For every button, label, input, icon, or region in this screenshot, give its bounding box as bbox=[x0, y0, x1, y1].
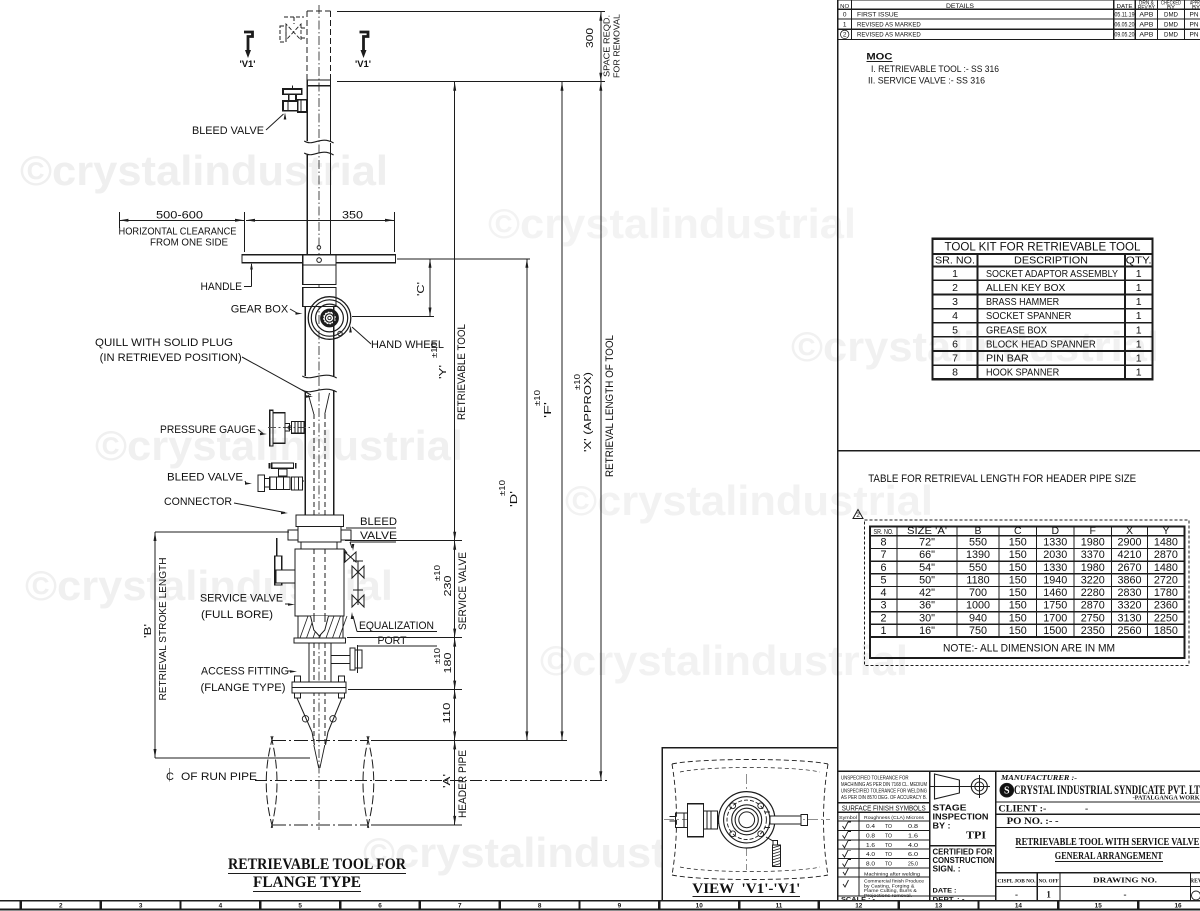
svg-text:5: 5 bbox=[298, 903, 302, 910]
svg-text:2250: 2250 bbox=[1154, 612, 1178, 624]
dimension X retrieval length of tool bbox=[410, 82, 616, 781]
svg-text:1.6: 1.6 bbox=[908, 833, 918, 839]
label hand wheel bbox=[349, 326, 444, 352]
section arrow V1 right bbox=[355, 32, 371, 70]
svg-text:TO: TO bbox=[885, 862, 892, 868]
svg-text:3: 3 bbox=[880, 600, 886, 612]
svg-text:SURFACE FINISH SYMBOLS: SURFACE FINISH SYMBOLS bbox=[842, 804, 926, 813]
title block outer bbox=[838, 771, 1200, 900]
handle bbox=[242, 255, 396, 266]
svg-text:RETRIEVABLE TOOL WITH SERVICE: RETRIEVABLE TOOL WITH SERVICE VALVE bbox=[1015, 837, 1199, 848]
svg-text:1180: 1180 bbox=[966, 574, 989, 586]
svg-text:1700: 1700 bbox=[1043, 612, 1067, 624]
svg-text:FIRST ISSUE: FIRST ISSUE bbox=[857, 12, 898, 19]
svg-text:'V1': 'V1' bbox=[355, 59, 371, 70]
svg-text:Roughness (CLA) Microns: Roughness (CLA) Microns bbox=[864, 815, 925, 820]
svg-text:RETRIEVAL STROKE LENGTH: RETRIEVAL STROKE LENGTH bbox=[157, 558, 169, 701]
svg-text:SIGN. :: SIGN. : bbox=[933, 865, 961, 874]
svg-text:1980: 1980 bbox=[1081, 562, 1105, 574]
pressure gauge bbox=[268, 410, 310, 446]
svg-text:8.0: 8.0 bbox=[866, 862, 875, 868]
svg-text:1: 1 bbox=[1136, 282, 1142, 294]
svg-text:2280: 2280 bbox=[1081, 587, 1105, 599]
view V1-V1 chain and pendant bbox=[766, 837, 780, 867]
dimension C bbox=[352, 259, 530, 317]
svg-text:STAGE: STAGE bbox=[933, 804, 967, 813]
svg-text:Symbol: Symbol bbox=[839, 815, 857, 820]
svg-text:4.0: 4.0 bbox=[908, 843, 918, 849]
svg-text:6: 6 bbox=[952, 338, 958, 350]
svg-text:NOTE:- ALL DIMENSION ARE IN MM: NOTE:- ALL DIMENSION ARE IN MM bbox=[943, 643, 1115, 655]
revision triangle marker 2 bbox=[853, 510, 863, 520]
svg-text:150: 150 bbox=[1009, 537, 1027, 549]
svg-text:1: 1 bbox=[843, 21, 847, 28]
svg-text:CISPL JOB NO.: CISPL JOB NO. bbox=[998, 879, 1037, 885]
svg-text:940: 940 bbox=[969, 612, 987, 624]
svg-text:-PATALGANGA WORK: -PATALGANGA WORK bbox=[1133, 796, 1200, 802]
svg-text:16: 16 bbox=[1174, 903, 1182, 910]
label handle bbox=[201, 263, 253, 294]
svg-text:0.8: 0.8 bbox=[866, 833, 875, 839]
svg-text:1940: 1940 bbox=[1043, 574, 1067, 586]
svg-text:150: 150 bbox=[1009, 625, 1027, 637]
svg-text:300: 300 bbox=[584, 28, 596, 48]
svg-text:F: F bbox=[1090, 525, 1096, 537]
svg-text:APB: APB bbox=[1139, 21, 1153, 28]
view V1-V1 title bbox=[692, 881, 800, 897]
svg-text:BLEED: BLEED bbox=[360, 516, 397, 528]
svg-text:-: - bbox=[1085, 805, 1088, 815]
svg-text:2: 2 bbox=[59, 903, 63, 910]
service valve lower hatched section bbox=[294, 616, 347, 643]
retrieval length table bbox=[870, 525, 1184, 658]
svg-text:'B': 'B' bbox=[142, 624, 154, 638]
dimension A header pipe bbox=[371, 740, 567, 825]
svg-text:150: 150 bbox=[1009, 562, 1027, 574]
view V1-V1 left stem assembly bbox=[670, 804, 719, 837]
svg-text:DMD: DMD bbox=[1164, 21, 1178, 28]
view V1-V1 flange circles bbox=[719, 792, 775, 848]
svg-text:230: 230 bbox=[442, 575, 454, 596]
svg-text:4.0: 4.0 bbox=[866, 852, 875, 858]
svg-text:1780: 1780 bbox=[1154, 587, 1178, 599]
svg-text:PORT: PORT bbox=[378, 635, 407, 647]
dimension 110 bbox=[441, 690, 456, 741]
svg-text:1: 1 bbox=[1046, 890, 1051, 900]
view V1-V1 box bbox=[662, 748, 838, 901]
svg-text:±10: ±10 bbox=[430, 341, 439, 358]
tool kit table bbox=[933, 239, 1153, 380]
svg-text:BRASS HAMMER: BRASS HAMMER bbox=[986, 296, 1060, 308]
view V1-V1 right stem bbox=[765, 812, 808, 828]
svg-text:BY: BY bbox=[1192, 5, 1200, 11]
svg-text:54": 54" bbox=[919, 562, 935, 574]
svg-text:GEAR BOX: GEAR BOX bbox=[231, 304, 289, 316]
svg-text:REVISED AS MARKED: REVISED AS MARKED bbox=[857, 21, 921, 28]
svg-text:CLIENT :-: CLIENT :- bbox=[998, 805, 1046, 815]
svg-text:66": 66" bbox=[919, 549, 935, 561]
panel separator horizontal line bbox=[838, 450, 1200, 452]
svg-text:3: 3 bbox=[139, 903, 143, 910]
label centerline of run pipe bbox=[166, 768, 257, 783]
svg-text:14: 14 bbox=[1015, 903, 1023, 910]
svg-text:UNSPECIFIED TOLERANCE FOR: UNSPECIFIED TOLERANCE FOR bbox=[841, 776, 909, 782]
svg-text:30": 30" bbox=[919, 612, 935, 624]
svg-text:1: 1 bbox=[952, 268, 958, 280]
svg-text:110: 110 bbox=[441, 702, 453, 723]
svg-text:SOCKET SPANNER: SOCKET SPANNER bbox=[986, 310, 1072, 322]
svg-text:3370: 3370 bbox=[1081, 549, 1105, 561]
drawing title retrievable tool for flange type bbox=[228, 856, 407, 892]
svg-text:±10: ±10 bbox=[573, 373, 582, 390]
svg-text:TOOL KIT FOR RETRIEVABLE TOOL: TOOL KIT FOR RETRIEVABLE TOOL bbox=[945, 242, 1142, 254]
svg-text:2360: 2360 bbox=[1154, 600, 1178, 612]
svg-text:10: 10 bbox=[696, 903, 704, 910]
svg-text:7: 7 bbox=[952, 353, 958, 365]
svg-text:1: 1 bbox=[1136, 338, 1142, 350]
svg-text:350: 350 bbox=[342, 210, 363, 222]
svg-text:72": 72" bbox=[919, 537, 935, 549]
svg-text:BY: BY bbox=[1167, 5, 1176, 11]
svg-text:APB: APB bbox=[1139, 32, 1153, 39]
svg-text:TO: TO bbox=[885, 843, 892, 849]
svg-text:SERVICE VALVE: SERVICE VALVE bbox=[200, 593, 283, 605]
svg-text:150: 150 bbox=[1009, 574, 1027, 586]
svg-text:RETRIEVABLE TOOL: RETRIEVABLE TOOL bbox=[456, 324, 468, 420]
svg-text:25.0: 25.0 bbox=[908, 862, 918, 868]
svg-text:FOR REMOVAL: FOR REMOVAL bbox=[613, 14, 622, 78]
svg-text:2870: 2870 bbox=[1154, 549, 1178, 561]
svg-text:3130: 3130 bbox=[1117, 612, 1141, 624]
svg-text:FLANGE TYPE: FLANGE TYPE bbox=[253, 874, 361, 891]
svg-text:5: 5 bbox=[880, 574, 886, 586]
manufacturer block bbox=[996, 773, 1200, 873]
svg-text:'C': 'C' bbox=[415, 282, 427, 296]
extension line handle top bbox=[397, 258, 530, 260]
svg-text:DATE :: DATE : bbox=[933, 888, 957, 895]
svg-text:QUILL WITH SOLID PLUG: QUILL WITH SOLID PLUG bbox=[95, 337, 233, 349]
svg-text:(FULL BORE): (FULL BORE) bbox=[201, 609, 273, 621]
svg-text:-: - bbox=[1015, 890, 1018, 900]
svg-text:HANDLE: HANDLE bbox=[201, 281, 243, 293]
svg-text:1: 1 bbox=[1136, 310, 1142, 322]
bleed valve middle bbox=[258, 463, 304, 491]
connector bbox=[288, 515, 351, 549]
svg-text:36": 36" bbox=[919, 600, 935, 612]
dimension F bbox=[533, 82, 564, 741]
svg-text:1850: 1850 bbox=[1154, 625, 1178, 637]
svg-text:SIZE 'A': SIZE 'A' bbox=[907, 525, 947, 537]
service valve body bbox=[275, 538, 344, 616]
view V1-V1 pipe section phantom bbox=[672, 760, 828, 880]
svg-text:0.8: 0.8 bbox=[908, 824, 918, 830]
svg-text:BLEED VALVE: BLEED VALVE bbox=[192, 125, 264, 137]
svg-text:RETRIEVABLE TOOL FOR: RETRIEVABLE TOOL FOR bbox=[228, 856, 407, 873]
dimension B retrieval stroke length bbox=[142, 532, 310, 758]
svg-text:(IN RETRIEVED POSITION): (IN RETRIEVED POSITION) bbox=[100, 352, 242, 364]
svg-text:TO: TO bbox=[885, 824, 892, 830]
projection symbol bbox=[930, 774, 990, 799]
svg-text:MANUFACTURER :-: MANUFACTURER :- bbox=[1000, 773, 1077, 782]
bleed valve fittings on service valve bbox=[344, 549, 364, 607]
svg-text:D: D bbox=[1051, 525, 1059, 537]
svg-text:500-600: 500-600 bbox=[156, 210, 203, 222]
phantom pipe extension (tool removed position) bbox=[307, 11, 330, 80]
svg-text:06.05.20: 06.05.20 bbox=[1115, 21, 1135, 28]
svg-text:SPACE REQD.: SPACE REQD. bbox=[603, 15, 612, 77]
svg-text:©crystalindustrial: ©crystalindustrial bbox=[540, 637, 908, 684]
label pressure gauge bbox=[160, 424, 267, 436]
svg-text:PIN BAR: PIN BAR bbox=[986, 353, 1029, 365]
svg-text:4210: 4210 bbox=[1117, 549, 1141, 561]
svg-text:TO: TO bbox=[885, 833, 892, 839]
svg-text:BLOCK HEAD SPANNER: BLOCK HEAD SPANNER bbox=[986, 338, 1096, 350]
svg-text:REVISED AS MARKED: REVISED AS MARKED bbox=[857, 32, 921, 39]
svg-text:1460: 1460 bbox=[1043, 587, 1067, 599]
svg-text:12: 12 bbox=[855, 903, 863, 910]
svg-text:3320: 3320 bbox=[1117, 600, 1141, 612]
svg-text:NO. OFF: NO. OFF bbox=[1039, 879, 1060, 885]
svg-text:OF RUN PIPE: OF RUN PIPE bbox=[181, 771, 257, 783]
hand wheel bbox=[308, 297, 351, 340]
svg-text:©crystalindustrial: ©crystalindustrial bbox=[95, 422, 463, 469]
svg-text:APB: APB bbox=[1139, 12, 1153, 19]
svg-text:II. SERVICE VALVE :- SS 316: II. SERVICE VALVE :- SS 316 bbox=[868, 76, 985, 87]
svg-text:8: 8 bbox=[952, 367, 958, 379]
svg-text:2: 2 bbox=[880, 612, 886, 624]
access fitting (flange type) bbox=[292, 643, 362, 768]
svg-text:(FLANGE TYPE): (FLANGE TYPE) bbox=[201, 682, 286, 694]
label bleed valve top bbox=[192, 113, 286, 138]
svg-text:DRAWING NO.: DRAWING NO. bbox=[1093, 877, 1157, 885]
svg-text:4: 4 bbox=[952, 310, 958, 322]
svg-text:2030: 2030 bbox=[1043, 549, 1067, 561]
svg-text:HEADER PIPE: HEADER PIPE bbox=[457, 750, 469, 818]
label equalization port bbox=[351, 612, 437, 647]
svg-text:TO: TO bbox=[885, 852, 892, 858]
svg-text:0.4: 0.4 bbox=[866, 824, 875, 830]
stage inspection block bbox=[930, 804, 996, 904]
svg-text:PRESSURE GAUGE: PRESSURE GAUGE bbox=[160, 424, 256, 436]
MOC notes bbox=[866, 52, 999, 87]
dimension Y with retrievable tool caption bbox=[345, 82, 468, 541]
svg-text:REV.BY: REV.BY bbox=[1138, 5, 1156, 11]
svg-text:HORIZONTAL CLEARANCE: HORIZONTAL CLEARANCE bbox=[119, 227, 237, 238]
svg-text:1480: 1480 bbox=[1154, 537, 1178, 549]
tool centerline bbox=[318, 5, 320, 830]
svg-text:ALLEN KEY BOX: ALLEN KEY BOX bbox=[986, 282, 1065, 294]
surface finish symbols table bbox=[838, 803, 930, 904]
svg-text:'X' (APPROX): 'X' (APPROX) bbox=[582, 372, 594, 452]
svg-text:4: 4 bbox=[880, 587, 886, 599]
svg-text:±10: ±10 bbox=[498, 479, 507, 496]
svg-text:5: 5 bbox=[952, 324, 958, 336]
svg-text:2670: 2670 bbox=[1117, 562, 1141, 574]
svg-text:2900: 2900 bbox=[1117, 537, 1141, 549]
svg-text:50": 50" bbox=[919, 574, 935, 586]
svg-text:±10: ±10 bbox=[433, 647, 442, 664]
tool tube lower with quill (retrieved) bbox=[302, 375, 336, 515]
svg-text:PN: PN bbox=[1190, 12, 1199, 19]
svg-text:13: 13 bbox=[935, 903, 943, 910]
svg-text:'A': 'A' bbox=[441, 774, 453, 788]
svg-text:8: 8 bbox=[538, 903, 542, 910]
svg-text:DETAILS: DETAILS bbox=[946, 3, 974, 10]
svg-text:2: 2 bbox=[952, 282, 958, 294]
svg-text:SERVICE VALVE: SERVICE VALVE bbox=[457, 552, 469, 630]
svg-text:INSPECTION: INSPECTION bbox=[933, 813, 989, 822]
svg-text:'F': 'F' bbox=[542, 402, 554, 418]
svg-text:1000: 1000 bbox=[966, 600, 990, 612]
svg-text:±10: ±10 bbox=[433, 564, 442, 581]
bleed valve top bbox=[283, 86, 307, 113]
dimension 500-600 horizontal clearance bbox=[119, 210, 245, 249]
svg-text:©crystalindustrial: ©crystalindustrial bbox=[488, 200, 856, 247]
watermark tiles bbox=[20, 147, 1159, 876]
drawing number strip bbox=[996, 873, 1200, 901]
svg-text:3860: 3860 bbox=[1117, 574, 1141, 586]
svg-text:42": 42" bbox=[919, 587, 935, 599]
bottom border numbered strip bbox=[0, 901, 1200, 910]
svg-text:'Y': 'Y' bbox=[437, 365, 449, 379]
svg-text:BY :: BY : bbox=[933, 822, 951, 831]
svg-text:PN: PN bbox=[1190, 32, 1199, 39]
dimension 230 service valve bbox=[433, 541, 469, 638]
svg-text:FROM ONE SIDE: FROM ONE SIDE bbox=[150, 238, 228, 249]
svg-text:2: 2 bbox=[856, 512, 860, 519]
svg-text:1: 1 bbox=[1136, 353, 1142, 365]
dimension 350 bbox=[245, 210, 395, 253]
svg-text:11: 11 bbox=[776, 903, 783, 910]
phantom bleed valve (removed position) bbox=[280, 17, 307, 42]
svg-text:MACHINING AS PER DIN 7168 CL.: MACHINING AS PER DIN 7168 CL. MEDIUM bbox=[841, 782, 927, 788]
svg-text:1: 1 bbox=[1136, 296, 1142, 308]
svg-text:UNSPECIFIED TOLERANCE FOR WELD: UNSPECIFIED TOLERANCE FOR WELDING bbox=[841, 789, 927, 795]
svg-text:1: 1 bbox=[1136, 268, 1142, 280]
svg-text:2750: 2750 bbox=[1081, 612, 1105, 624]
label bleed valve on service valve bbox=[346, 516, 397, 551]
svg-text:CONNECTOR: CONNECTOR bbox=[164, 496, 232, 508]
svg-text:1: 1 bbox=[1136, 324, 1142, 336]
svg-text:QTY.: QTY. bbox=[1126, 255, 1152, 267]
svg-text:2560: 2560 bbox=[1117, 625, 1141, 637]
svg-text:550: 550 bbox=[969, 537, 987, 549]
svg-text:3220: 3220 bbox=[1081, 574, 1105, 586]
label gear box bbox=[231, 304, 303, 316]
svg-text:6: 6 bbox=[880, 562, 886, 574]
svg-text:VIEW 'V1'-'V1': VIEW 'V1'-'V1' bbox=[692, 881, 800, 897]
svg-text:1480: 1480 bbox=[1154, 562, 1178, 574]
svg-text:TPI: TPI bbox=[966, 831, 986, 842]
svg-text:7: 7 bbox=[880, 549, 886, 561]
svg-text:DATE: DATE bbox=[1117, 4, 1133, 10]
svg-text:NO: NO bbox=[840, 4, 849, 10]
svg-text:700: 700 bbox=[969, 587, 987, 599]
svg-text:SR. NO.: SR. NO. bbox=[874, 529, 894, 536]
svg-text:05.11.19: 05.11.19 bbox=[1115, 12, 1135, 19]
svg-text:7: 7 bbox=[458, 903, 462, 910]
svg-text:150: 150 bbox=[1009, 587, 1027, 599]
svg-text:09.05.20: 09.05.20 bbox=[1115, 32, 1135, 39]
revision table bbox=[838, 0, 1200, 40]
svg-text:©crystalindustrial: ©crystalindustrial bbox=[791, 323, 1159, 370]
svg-text:1: 1 bbox=[1136, 367, 1142, 379]
svg-text:1980: 1980 bbox=[1081, 537, 1105, 549]
svg-text:8: 8 bbox=[880, 537, 886, 549]
svg-text:2830: 2830 bbox=[1117, 587, 1141, 599]
svg-text:1500: 1500 bbox=[1043, 625, 1067, 637]
svg-text:Y: Y bbox=[1162, 525, 1169, 537]
svg-text:6: 6 bbox=[378, 903, 382, 910]
svg-text:2720: 2720 bbox=[1154, 574, 1178, 586]
svg-text:±10: ±10 bbox=[533, 389, 542, 406]
svg-text:MOC: MOC bbox=[866, 52, 893, 62]
label quill with solid plug bbox=[95, 337, 313, 398]
svg-text:C: C bbox=[1014, 525, 1022, 537]
svg-text:REV: REV bbox=[1190, 878, 1200, 885]
dimension 300 space reqd. for removal bbox=[337, 12, 622, 82]
svg-text:1.6: 1.6 bbox=[866, 843, 875, 849]
svg-text:Machining after welding: Machining after welding bbox=[864, 872, 920, 878]
svg-text:750: 750 bbox=[969, 625, 987, 637]
svg-text:1: 1 bbox=[880, 625, 886, 637]
svg-text:GREASE BOX: GREASE BOX bbox=[986, 324, 1047, 336]
svg-text:3: 3 bbox=[952, 296, 958, 308]
panel separator vertical line bbox=[837, 0, 839, 901]
svg-text:TABLE FOR RETRIEVAL LENGTH FOR: TABLE FOR RETRIEVAL LENGTH FOR HEADER PI… bbox=[868, 473, 1136, 485]
svg-text:SR. NO.: SR. NO. bbox=[935, 255, 975, 267]
header run pipe (phantom) bbox=[255, 736, 410, 829]
retrieval length table revision cloud bbox=[865, 520, 1189, 666]
svg-text:DMD: DMD bbox=[1164, 12, 1178, 19]
svg-text:16": 16" bbox=[919, 625, 935, 637]
svg-text:550: 550 bbox=[969, 562, 987, 574]
svg-text:-: - bbox=[1124, 890, 1127, 900]
svg-text:ACCESS FITTING: ACCESS FITTING bbox=[201, 666, 289, 678]
svg-text:1330: 1330 bbox=[1043, 562, 1067, 574]
svg-text:2350: 2350 bbox=[1081, 625, 1105, 637]
label service valve full bore bbox=[200, 593, 295, 622]
svg-text:AS PER DIN 8570 DEG. OF ACCURA: AS PER DIN 8570 DEG. OF ACCURACY B. bbox=[841, 795, 927, 801]
svg-text:'V1': 'V1' bbox=[240, 59, 256, 70]
label bleed valve middle bbox=[167, 472, 252, 485]
label access fitting bbox=[201, 666, 298, 695]
unspecified tolerance notes bbox=[841, 776, 927, 802]
svg-text:150: 150 bbox=[1009, 612, 1027, 624]
view V1-V1 centerlines bbox=[664, 774, 830, 870]
svg-text:1390: 1390 bbox=[966, 549, 990, 561]
svg-text:9: 9 bbox=[618, 903, 622, 910]
svg-text:2: 2 bbox=[843, 32, 847, 39]
gear box bbox=[303, 265, 336, 376]
svg-text:6.0: 6.0 bbox=[908, 852, 918, 858]
svg-text:DESCRIPTION: DESCRIPTION bbox=[1014, 255, 1088, 267]
dimension D bbox=[498, 259, 528, 741]
svg-text:2870: 2870 bbox=[1081, 600, 1105, 612]
tool tube upper section bbox=[304, 80, 333, 255]
svg-text:PO NO. :- -: PO NO. :- - bbox=[1007, 817, 1059, 827]
svg-text:B: B bbox=[974, 525, 981, 537]
svg-text:PN: PN bbox=[1190, 21, 1199, 28]
svg-text:X: X bbox=[1126, 525, 1133, 537]
svg-text:SOCKET ADAPTOR ASSEMBLY: SOCKET ADAPTOR ASSEMBLY bbox=[986, 268, 1118, 280]
section arrow V1 left bbox=[240, 32, 256, 70]
svg-text:15: 15 bbox=[1095, 903, 1103, 910]
svg-text:0: 0 bbox=[843, 12, 847, 19]
dimension 180 bbox=[347, 638, 462, 690]
svg-text:1330: 1330 bbox=[1043, 537, 1067, 549]
svg-text:DMD: DMD bbox=[1164, 32, 1178, 39]
